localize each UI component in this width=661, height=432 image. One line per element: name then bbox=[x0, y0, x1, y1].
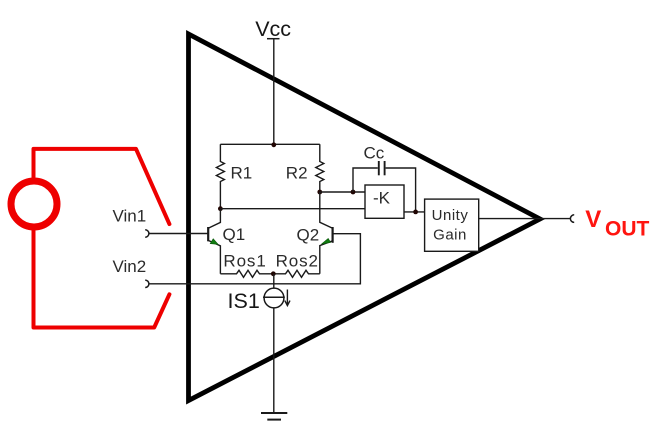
svg-text:R2: R2 bbox=[286, 164, 308, 183]
wire red bottom lead to Vin2 switch blade bbox=[34, 230, 170, 328]
resistor R1 bbox=[216, 144, 224, 208]
wire IS1 to ground bbox=[273, 308, 275, 413]
junction emitter resistors / IS1 bbox=[271, 271, 276, 276]
capacitor Cc bbox=[378, 161, 380, 175]
wire red top lead to Vin1 switch blade bbox=[34, 149, 170, 224]
wire -K output to unity gain bbox=[404, 211, 425, 213]
Vcc terminal tick bbox=[267, 38, 280, 40]
IS1 chord bbox=[263, 296, 285, 298]
wire feedback tap up to Cc left plate bbox=[353, 168, 378, 192]
resistor Ros1 bbox=[220, 270, 273, 277]
current source IS1 bbox=[263, 274, 290, 308]
wire R2 node to -K input bbox=[320, 191, 365, 193]
svg-text:Ros2: Ros2 bbox=[276, 251, 319, 270]
input terminal Vin2 bbox=[145, 280, 149, 287]
output terminal bbox=[570, 215, 574, 223]
junction rail/Vcc bbox=[271, 142, 276, 147]
wire Vin1 to Q1 base bbox=[149, 233, 208, 235]
wire supply rail bbox=[220, 143, 319, 145]
wire Vcc down to supply rail bbox=[273, 39, 275, 145]
ground bbox=[261, 413, 287, 420]
wire output to terminal bbox=[479, 218, 571, 220]
IS1 circle bbox=[264, 288, 284, 308]
transistor Q2 bbox=[320, 192, 333, 274]
svg-text:Vin1: Vin1 bbox=[113, 207, 147, 226]
IS1 direction arrow bbox=[285, 290, 290, 306]
wire Vin2 to Q2 base (long run with riser) bbox=[149, 234, 361, 284]
Q1 emitter arrow bbox=[210, 239, 218, 245]
svg-text:Gain: Gain bbox=[433, 226, 467, 243]
svg-text:Unity: Unity bbox=[432, 207, 469, 224]
svg-text:IS1: IS1 bbox=[228, 289, 260, 313]
svg-text:OUT: OUT bbox=[605, 218, 650, 241]
Q1 base bar bbox=[207, 227, 209, 241]
Q1 emitter bbox=[208, 240, 220, 273]
junction R2 bottom node bbox=[317, 190, 322, 195]
svg-text:Vcc: Vcc bbox=[255, 17, 291, 41]
svg-text:Ros1: Ros1 bbox=[223, 251, 266, 270]
wire Cc right plate down to -K output node bbox=[386, 168, 416, 212]
svg-text:R1: R1 bbox=[231, 164, 253, 183]
Q1 collector bbox=[208, 209, 220, 229]
svg-text:Q2: Q2 bbox=[297, 225, 320, 244]
gain block -K bbox=[365, 185, 404, 218]
source V1 (red voltage source circle) bbox=[11, 181, 57, 227]
Q2 base bar bbox=[332, 227, 334, 243]
Q2 collector bbox=[320, 192, 333, 228]
wire R1 node to -K input bbox=[220, 208, 365, 210]
junction Cc feedback tap bbox=[351, 190, 356, 195]
wire node to IS1 bbox=[273, 274, 275, 289]
svg-text:Vin2: Vin2 bbox=[113, 257, 147, 276]
resistor Ros2 bbox=[273, 270, 320, 277]
svg-text:-K: -K bbox=[373, 188, 391, 207]
svg-text:Cc: Cc bbox=[364, 144, 385, 163]
Q2 emitter arrow bbox=[321, 239, 330, 245]
transistor Q1 bbox=[208, 209, 220, 274]
input terminal Vin1 bbox=[145, 230, 149, 237]
Q2 emitter bbox=[320, 241, 333, 274]
resistor R2 bbox=[316, 144, 324, 192]
svg-text:Q1: Q1 bbox=[223, 225, 246, 244]
unity gain block bbox=[425, 199, 479, 251]
junction -K output / feedback bbox=[413, 210, 418, 215]
op-amp body U1 (triangle) bbox=[189, 34, 541, 401]
junction R1 bottom node bbox=[218, 206, 223, 211]
svg-text:V: V bbox=[585, 206, 601, 233]
